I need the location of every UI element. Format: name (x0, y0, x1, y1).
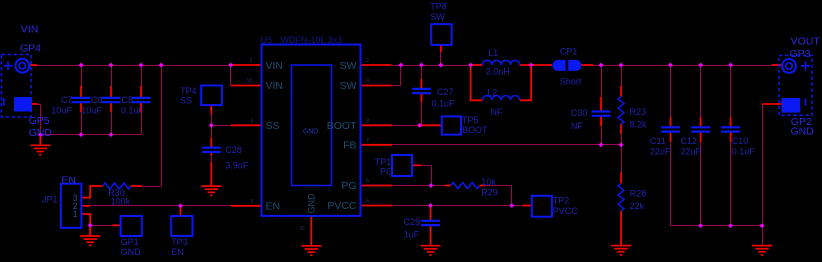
svg-text:1uF: 1uF (404, 230, 420, 240)
svg-text:TP1: TP1 (375, 157, 392, 167)
svg-text:PVCC: PVCC (327, 200, 357, 212)
svg-text:GND: GND (791, 125, 815, 137)
svg-text:BOOT: BOOT (462, 125, 488, 135)
svg-text:GP3: GP3 (790, 48, 811, 60)
svg-text:BOOT: BOOT (327, 120, 357, 132)
svg-text:FB: FB (343, 140, 356, 152)
svg-text:VIN: VIN (21, 24, 39, 36)
svg-text:TP8: TP8 (430, 1, 447, 11)
svg-text:SS: SS (180, 96, 192, 106)
svg-text:C11: C11 (650, 136, 666, 146)
svg-text:9: 9 (366, 79, 369, 85)
svg-text:C10: C10 (732, 136, 749, 146)
svg-text:R29: R29 (481, 187, 498, 197)
svg-text:22uF: 22uF (681, 147, 702, 157)
svg-text:11: 11 (300, 226, 306, 232)
svg-text:PG: PG (380, 167, 393, 177)
svg-text:L1: L1 (488, 48, 498, 58)
svg-text:C30: C30 (571, 108, 588, 118)
svg-text:10k: 10k (481, 177, 496, 187)
svg-text:GND: GND (303, 129, 318, 136)
svg-text:1: 1 (73, 209, 78, 219)
svg-text:TP3: TP3 (171, 237, 188, 247)
svg-text:NF: NF (491, 107, 503, 117)
svg-text:JP1: JP1 (42, 194, 58, 204)
svg-text:8: 8 (366, 118, 369, 124)
svg-text:SW: SW (340, 80, 357, 92)
svg-text:NF: NF (571, 121, 583, 131)
svg-text:3: 3 (250, 199, 253, 205)
svg-text:6: 6 (366, 179, 369, 185)
svg-text:VOUT: VOUT (791, 35, 821, 47)
svg-text:EN: EN (61, 174, 76, 186)
svg-text:3.9nF: 3.9nF (225, 161, 249, 171)
svg-text:TP2: TP2 (553, 196, 570, 206)
svg-text:100k: 100k (111, 197, 131, 207)
svg-text:22uF: 22uF (650, 147, 671, 157)
svg-text:4: 4 (250, 118, 253, 124)
svg-text:C8: C8 (122, 95, 134, 105)
svg-text:EN: EN (171, 247, 184, 257)
svg-text:10uF: 10uF (81, 106, 102, 116)
svg-text:C28: C28 (225, 145, 242, 155)
svg-text:GP1: GP1 (121, 237, 139, 247)
svg-text:WDFN-10L 3x3: WDFN-10L 3x3 (281, 35, 343, 45)
svg-text:TP5: TP5 (462, 115, 479, 125)
svg-text:GP5: GP5 (29, 115, 50, 127)
svg-text:GND: GND (307, 193, 317, 214)
svg-text:L2: L2 (487, 87, 497, 97)
svg-text:C12: C12 (681, 136, 698, 146)
svg-text:2: 2 (366, 58, 369, 64)
svg-text:1: 1 (249, 58, 252, 64)
svg-text:C27: C27 (437, 87, 454, 97)
svg-text:C29: C29 (404, 217, 421, 227)
svg-text:C7: C7 (61, 95, 73, 105)
svg-text:VIN: VIN (266, 60, 284, 72)
svg-text:0.1uF: 0.1uF (432, 99, 456, 109)
svg-text:0.1uF: 0.1uF (732, 147, 756, 157)
svg-text:GP4: GP4 (20, 43, 41, 55)
svg-text:22k: 22k (630, 201, 645, 211)
svg-text:2.0uH: 2.0uH (486, 66, 510, 76)
svg-text:TP4: TP4 (180, 86, 197, 96)
svg-text:CP1: CP1 (560, 46, 578, 56)
svg-text:R23: R23 (630, 107, 647, 117)
svg-text:0.1uF: 0.1uF (121, 106, 145, 116)
svg-text:SW: SW (430, 12, 445, 22)
svg-text:GND: GND (121, 247, 142, 257)
svg-text:10: 10 (246, 79, 252, 85)
svg-text:PVCC: PVCC (553, 206, 579, 216)
svg-text:GND: GND (29, 127, 53, 139)
svg-text:PG: PG (341, 180, 356, 192)
svg-text:10uF: 10uF (51, 106, 72, 116)
svg-text:SW: SW (340, 60, 357, 72)
svg-text:8.2k: 8.2k (630, 120, 648, 130)
svg-text:7: 7 (366, 138, 369, 144)
svg-text:SS: SS (266, 120, 280, 132)
svg-text:U5: U5 (261, 35, 273, 45)
svg-text:5: 5 (366, 199, 369, 205)
svg-text:R28: R28 (630, 189, 647, 199)
svg-text:EN: EN (266, 201, 281, 213)
svg-text:C9: C9 (91, 95, 103, 105)
svg-text:Short: Short (560, 77, 582, 87)
svg-text:VIN: VIN (266, 80, 284, 92)
